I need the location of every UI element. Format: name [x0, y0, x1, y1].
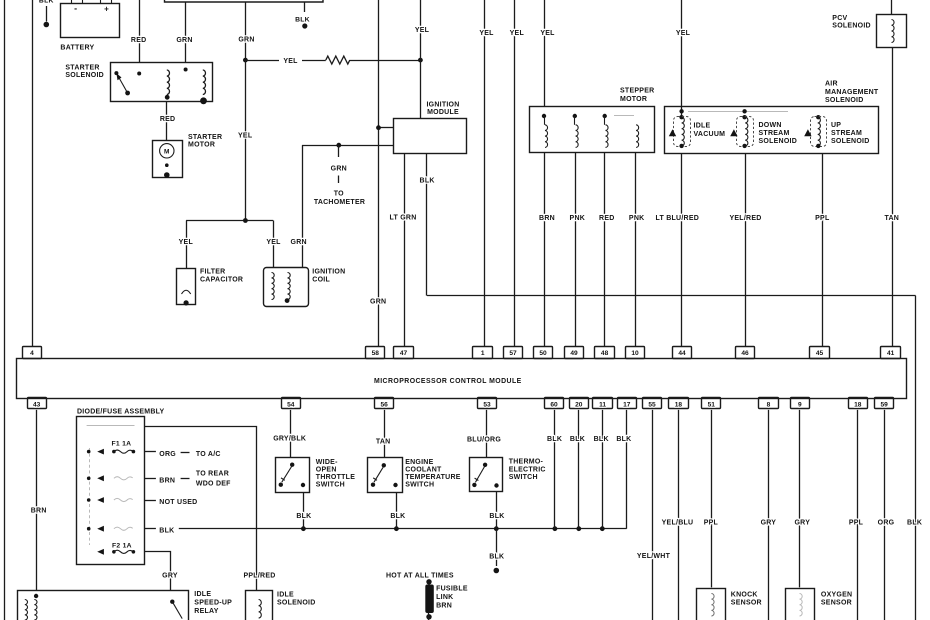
svg-text:SWITCH: SWITCH	[509, 474, 538, 481]
diode row 5	[97, 549, 104, 555]
pin 56 (bottom)	[375, 398, 394, 409]
svg-text:53: 53	[483, 401, 491, 408]
svg-text:YEL: YEL	[415, 27, 430, 34]
svg-text:SOLENOID: SOLENOID	[831, 138, 870, 145]
capacitor filter capacitor	[177, 269, 196, 305]
svg-text:MANAGEMENT: MANAGEMENT	[825, 89, 879, 96]
wire RED (to starter solenoid)	[139, 0, 141, 63]
svg-text:54: 54	[287, 401, 295, 408]
svg-text:ENGINE: ENGINE	[405, 459, 433, 466]
svg-text:IDLE: IDLE	[277, 592, 294, 599]
wire BLK (WOT to bus)	[303, 493, 305, 529]
op ignition module	[394, 119, 467, 154]
pin 11 (bottom)	[593, 398, 613, 409]
wire TAN (PCV to pin 41)	[892, 48, 894, 347]
svg-text:MODULE: MODULE	[427, 109, 459, 116]
pin 9 (bottom)	[791, 398, 810, 409]
svg-text:18: 18	[854, 401, 862, 408]
svg-text:COIL: COIL	[312, 277, 330, 284]
svg-text:RED: RED	[160, 116, 176, 123]
svg-text:SOLENOID: SOLENOID	[825, 97, 864, 104]
wire BLK (thermo to bus and ground)	[496, 492, 498, 529]
svg-text:SWITCH: SWITCH	[316, 482, 345, 489]
svg-text:IDLE: IDLE	[194, 591, 211, 598]
svg-text:DIODE/FUSE ASSEMBLY: DIODE/FUSE ASSEMBLY	[77, 409, 165, 416]
svg-text:UP: UP	[831, 122, 841, 129]
pin 8 (bottom)	[759, 398, 779, 409]
pin 18 (bottom)	[669, 398, 689, 409]
svg-text:RED: RED	[599, 215, 615, 222]
wire (top to MCM pin 4)	[32, 0, 34, 347]
svg-text:MICROPROCESSOR CONTROL MODUL: MICROPROCESSOR CONTROL MODULE	[374, 378, 522, 385]
top box (cut off at page top)	[165, 0, 324, 2]
svg-text:60: 60	[550, 401, 558, 408]
svg-text:MOTOR: MOTOR	[620, 96, 647, 103]
svg-text:SWITCH: SWITCH	[405, 482, 434, 489]
wire module to GRN	[379, 127, 394, 129]
svg-text:-: -	[74, 4, 77, 14]
diode row 4	[87, 527, 91, 531]
pin 49 (top)	[565, 347, 584, 359]
node BLK row	[144, 528, 156, 530]
svg-text:SPEED-UP: SPEED-UP	[194, 600, 232, 607]
svg-text:M: M	[164, 149, 170, 156]
wire YEL tee	[186, 220, 273, 222]
svg-text:PPL/RED: PPL/RED	[243, 573, 275, 580]
wire PPL (pin 18 right)	[857, 410, 859, 620]
svg-text:YEL: YEL	[283, 58, 298, 65]
svg-text:THERMO-: THERMO-	[509, 459, 544, 466]
svg-text:55: 55	[648, 401, 656, 408]
pin 1 (top)	[473, 347, 493, 359]
svg-text:YEL: YEL	[540, 30, 555, 37]
pin 46 (top)	[736, 347, 755, 359]
node GRN to tachometer	[338, 145, 340, 157]
svg-text:BLK: BLK	[489, 513, 504, 520]
pin 55 (bottom)	[643, 398, 662, 409]
svg-text:YEL/WHT: YEL/WHT	[637, 553, 671, 560]
svg-text:TACHOMETER: TACHOMETER	[314, 199, 365, 206]
svg-text:STARTER: STARTER	[188, 134, 222, 141]
svg-text:SOLENOID: SOLENOID	[65, 72, 104, 79]
wire LT BLU/RED (to pin 44)	[681, 154, 683, 347]
node ORG to A/C	[144, 451, 156, 453]
pin 47 (top)	[394, 347, 414, 359]
svg-text:46: 46	[741, 350, 749, 357]
svg-text:VACUUM: VACUUM	[694, 131, 726, 138]
wire BRN (stepper to pin 50)	[544, 152, 546, 347]
svg-text:LT GRN: LT GRN	[389, 215, 416, 222]
solenoid air management assembly	[665, 107, 879, 154]
pin 53 (bottom)	[478, 398, 497, 409]
svg-text:43: 43	[33, 401, 41, 408]
wire YEL (to MCM pin 57)	[514, 0, 516, 347]
diode row 2	[87, 477, 91, 481]
wire YEL (junction to coil tee)	[243, 58, 248, 63]
svg-text:BLK: BLK	[489, 554, 504, 561]
svg-text:NOT USED: NOT USED	[159, 499, 197, 506]
svg-text:8: 8	[767, 401, 771, 408]
wire BLK (pin 60 to bus)	[554, 410, 556, 529]
svg-text:TAN: TAN	[376, 439, 391, 446]
svg-text:PNK: PNK	[570, 215, 586, 222]
svg-text:PPL: PPL	[704, 520, 719, 527]
pin 60 (bottom)	[545, 398, 564, 409]
svg-text:SOLENOID: SOLENOID	[759, 138, 798, 145]
svg-text:IGNITION: IGNITION	[426, 102, 459, 109]
wire BLK (pin 17 to bus)	[626, 410, 628, 529]
svg-text:F2 1A: F2 1A	[112, 542, 132, 549]
switch thermo-electric	[486, 410, 488, 458]
svg-text:LT BLU/RED: LT BLU/RED	[656, 215, 700, 222]
svg-text:STARTER: STARTER	[65, 65, 99, 72]
svg-text:47: 47	[400, 350, 408, 357]
wire YEL/WHT (pin 55)	[652, 410, 654, 620]
wire YEL (to ignition module)	[420, 0, 422, 118]
svg-text:DOWN: DOWN	[759, 122, 782, 129]
svg-text:BRN: BRN	[31, 508, 47, 515]
svg-text:GRN: GRN	[291, 239, 307, 246]
svg-text:BLK: BLK	[907, 520, 922, 527]
pin 57 (top)	[504, 347, 523, 359]
svg-text:WDO DEF: WDO DEF	[196, 481, 231, 488]
pin 18 (bottom)	[849, 398, 868, 409]
pin 41 (top)	[881, 347, 901, 359]
pin 4 (top)	[23, 347, 42, 359]
svg-text:YEL: YEL	[238, 133, 253, 140]
solenoid PCV	[891, 0, 893, 14]
wire PPL/RED (fuse box to idle solenoid)	[145, 427, 257, 591]
pin 54 (bottom)	[282, 398, 301, 409]
svg-text:ELECTRIC: ELECTRIC	[509, 466, 546, 473]
wire GRY (pin 9 to oxygen sensor)	[799, 410, 801, 588]
svg-text:BRN: BRN	[436, 603, 452, 610]
wire BLK (pin 11 to bus)	[602, 410, 604, 529]
wire YEL/RED (to pin 46)	[745, 154, 747, 347]
svg-text:41: 41	[887, 350, 895, 357]
svg-text:YEL/RED: YEL/RED	[729, 215, 761, 222]
svg-text:CAPACITOR: CAPACITOR	[200, 277, 243, 284]
svg-text:F1 1A: F1 1A	[112, 440, 132, 447]
pin 51 (bottom)	[702, 398, 721, 409]
wire BLK (pin 20 to bus)	[578, 410, 580, 529]
svg-text:PPL: PPL	[849, 520, 864, 527]
svg-text:58: 58	[372, 350, 380, 357]
svg-text:FUSIBLE: FUSIBLE	[436, 586, 468, 593]
svg-text:YEL: YEL	[510, 30, 525, 37]
svg-text:LINK: LINK	[436, 594, 453, 601]
pin 45 (top)	[810, 347, 830, 359]
svg-text:59: 59	[881, 401, 889, 408]
diode row 3	[87, 498, 91, 502]
svg-text:THROTTLE: THROTTLE	[316, 474, 355, 481]
solenoid down stream	[742, 109, 746, 113]
svg-text:BATTERY: BATTERY	[60, 45, 94, 52]
wire module to ignition coil	[302, 145, 394, 147]
svg-text:YEL/BLU: YEL/BLU	[662, 520, 694, 527]
op-amp microprocessor control module	[17, 359, 907, 399]
sensor knock	[697, 589, 726, 620]
svg-text:11: 11	[599, 401, 606, 408]
svg-text:PCV: PCV	[832, 15, 847, 22]
svg-text:TEMPERATURE: TEMPERATURE	[405, 474, 461, 481]
wire GRN (to starter solenoid)	[185, 2, 187, 63]
starter motor	[153, 141, 183, 178]
wire GRN (to YEL junction)	[245, 2, 247, 60]
svg-text:BLK: BLK	[295, 17, 310, 24]
wire GRY (F2 to relay)	[145, 552, 171, 591]
svg-text:TO: TO	[334, 191, 344, 198]
pin 17 (bottom)	[618, 398, 637, 409]
transformer ignition coil	[264, 268, 309, 307]
resistor	[326, 56, 350, 64]
svg-text:BRN: BRN	[539, 215, 555, 222]
svg-text:BLU/ORG: BLU/ORG	[467, 437, 501, 444]
wire YEL (to MCM pin 1)	[484, 0, 486, 347]
svg-text:BLK: BLK	[296, 513, 311, 520]
svg-text:57: 57	[509, 350, 517, 357]
pin 44 (top)	[673, 347, 692, 359]
svg-text:BLK: BLK	[420, 178, 435, 185]
svg-text:BLK: BLK	[39, 0, 54, 5]
svg-text:BLK: BLK	[594, 436, 609, 443]
svg-text:20: 20	[575, 401, 583, 408]
svg-text:GRY/BLK: GRY/BLK	[273, 436, 306, 443]
svg-text:AIR: AIR	[825, 81, 838, 88]
svg-text:RED: RED	[131, 37, 147, 44]
svg-text:GRN: GRN	[176, 37, 192, 44]
wire PNK (stepper to pin 10)	[635, 152, 637, 347]
switch engine coolant temperature	[384, 410, 386, 458]
svg-text:RELAY: RELAY	[194, 608, 218, 615]
wire BRN (pin 43 to idle speed-up relay)	[36, 410, 38, 591]
svg-text:ORG: ORG	[878, 520, 895, 527]
svg-text:IGNITION: IGNITION	[312, 269, 345, 276]
wire LT GRN (module to pin 47)	[404, 153, 406, 347]
svg-text:BLK: BLK	[616, 436, 631, 443]
wire ORG (pin 59)	[884, 410, 886, 620]
svg-text:51: 51	[708, 401, 716, 408]
pin 43 (bottom)	[28, 398, 47, 409]
wire PPL (pin 51 to knock sensor)	[711, 410, 713, 588]
sensor oxygen	[786, 589, 815, 620]
svg-text:18: 18	[675, 401, 683, 408]
relay idle speed-up	[18, 591, 189, 620]
svg-text:45: 45	[816, 350, 824, 357]
svg-text:STREAM: STREAM	[831, 130, 862, 137]
wire YEL (to air management solenoid)	[681, 0, 683, 117]
svg-text:50: 50	[539, 350, 547, 357]
border (left page edge)	[4, 0, 6, 620]
pin 50 (top)	[534, 347, 553, 359]
svg-text:1: 1	[481, 350, 485, 357]
svg-text:PPL: PPL	[815, 215, 830, 222]
wire GRN (module to ignition coil)	[302, 145, 304, 267]
svg-text:IDLE: IDLE	[694, 123, 711, 130]
svg-text:TO A/C: TO A/C	[196, 451, 221, 458]
wire PNK (stepper to pin 49)	[575, 152, 577, 347]
wire YEL/BLU (pin 18)	[678, 410, 680, 620]
svg-text:STEPPER: STEPPER	[620, 88, 654, 95]
wire PPL (to pin 45)	[822, 154, 824, 347]
wire YEL horizontal	[245, 60, 279, 62]
svg-text:GRY: GRY	[162, 573, 178, 580]
svg-text:SENSOR: SENSOR	[731, 600, 762, 607]
wire GRY (pin 8)	[768, 410, 770, 620]
svg-text:YEL: YEL	[676, 30, 691, 37]
svg-text:HOT AT ALL TIMES: HOT AT ALL TIMES	[386, 573, 454, 580]
svg-text:9: 9	[798, 401, 802, 408]
svg-text:49: 49	[570, 350, 578, 357]
starter solenoid	[111, 63, 213, 102]
svg-text:BLK: BLK	[547, 436, 562, 443]
wire RED (stepper to pin 48)	[604, 152, 606, 347]
switch wide-open throttle	[290, 410, 292, 458]
svg-text:GRY: GRY	[761, 520, 777, 527]
svg-text:YEL: YEL	[179, 239, 194, 246]
wire BLK (ECT to bus)	[396, 493, 398, 529]
svg-text:SENSOR: SENSOR	[821, 600, 852, 607]
svg-text:KNOCK: KNOCK	[731, 592, 758, 599]
svg-text:BRN: BRN	[159, 478, 175, 485]
solenoid idle	[246, 591, 273, 620]
solenoid up stream	[816, 115, 820, 119]
pin 48 (top)	[595, 347, 615, 359]
svg-text:OPEN: OPEN	[316, 467, 337, 474]
node BLK stub from top box	[304, 2, 306, 12]
wire GRN (to MCM pin 58)	[378, 0, 380, 347]
svg-text:+: +	[104, 5, 109, 14]
svg-text:48: 48	[601, 350, 609, 357]
svg-text:BLK: BLK	[390, 513, 405, 520]
svg-text:ORG: ORG	[159, 451, 176, 458]
svg-text:TAN: TAN	[884, 215, 899, 222]
wire RED (solenoid to starter motor)	[166, 102, 168, 140]
svg-text:GRN: GRN	[331, 165, 347, 172]
svg-text:MOTOR: MOTOR	[188, 142, 215, 149]
svg-text:17: 17	[623, 401, 631, 408]
svg-text:FILTER: FILTER	[200, 269, 225, 276]
node not used	[144, 500, 156, 502]
node BRN to rear window defogger	[144, 478, 156, 480]
svg-text:BLK: BLK	[159, 528, 174, 535]
svg-text:GRN: GRN	[238, 37, 254, 44]
svg-text:GRY: GRY	[794, 520, 810, 527]
svg-text:10: 10	[631, 350, 639, 357]
svg-text:WIDE-: WIDE-	[316, 459, 338, 466]
svg-text:SOLENOID: SOLENOID	[832, 23, 871, 30]
svg-text:BLK: BLK	[570, 436, 585, 443]
svg-text:STREAM: STREAM	[759, 130, 790, 137]
svg-text:56: 56	[381, 401, 389, 408]
svg-text:OXYGEN: OXYGEN	[821, 592, 852, 599]
battery	[61, 4, 120, 38]
svg-text:PNK: PNK	[629, 215, 645, 222]
pin 10 (top)	[626, 347, 645, 359]
svg-text:4: 4	[30, 350, 34, 357]
pin 58 (top)	[366, 347, 385, 359]
svg-text:44: 44	[678, 350, 686, 357]
svg-text:YEL: YEL	[479, 30, 494, 37]
wire BLK bus	[179, 528, 627, 530]
svg-text:GRN: GRN	[370, 299, 386, 306]
wire BLK (ignition module to right edge)	[426, 153, 428, 295]
motor stepper motor	[530, 107, 655, 153]
svg-text:SOLENOID: SOLENOID	[277, 600, 316, 607]
wire YEL (to stepper motor)	[544, 0, 546, 106]
svg-text:COOLANT: COOLANT	[405, 467, 442, 474]
diode row 1	[87, 450, 91, 454]
svg-text:YEL: YEL	[266, 239, 281, 246]
svg-text:TO REAR: TO REAR	[196, 471, 229, 478]
solenoid idle vacuum	[679, 109, 683, 113]
pin 20 (bottom)	[570, 398, 589, 409]
pin 59 (bottom)	[875, 398, 894, 409]
